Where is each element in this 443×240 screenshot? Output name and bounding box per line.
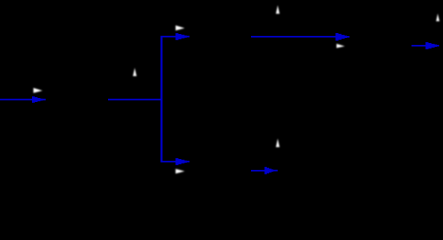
marker C: white direction arrow above W4 arrowhead <box>176 25 185 30</box>
wire W1: left input net, horizontal segment <box>0 99 33 101</box>
marker E: white direction arrow below W5 arrowhead <box>337 44 345 48</box>
wire V3: vertical branch trunk at junction <box>161 36 163 162</box>
marker F: white up arrow above W6 <box>436 14 439 22</box>
wire W6: top right output segment <box>412 45 427 47</box>
marker B: white up arrow above W2 <box>133 68 137 76</box>
wire W4: top branch horizontal segment <box>161 36 177 38</box>
arrowhead of wire W8 into block port <box>265 167 278 174</box>
wire W8: bottom middle horizontal segment <box>251 170 265 172</box>
marker D: white up arrow above W5 start <box>276 5 280 14</box>
marker G: white direction arrow below W7 arrowhead <box>176 169 185 174</box>
arrowhead of wire W7 into block port <box>176 158 190 165</box>
wire W7: bottom branch horizontal segment <box>161 161 177 163</box>
marker A: white direction arrow above W1 <box>33 88 42 93</box>
wire W2: horizontal segment from hidden block to junction <box>108 99 162 101</box>
arrowhead of wire W6 at right output <box>426 42 440 49</box>
arrowhead of wire W4 into block port <box>176 33 190 40</box>
arrowhead of wire W1 into block port <box>32 96 46 102</box>
wire W5: top middle horizontal segment <box>251 36 336 38</box>
arrowhead of wire W5 into block port <box>336 33 350 41</box>
marker H: white up arrow above W8 <box>276 139 280 148</box>
